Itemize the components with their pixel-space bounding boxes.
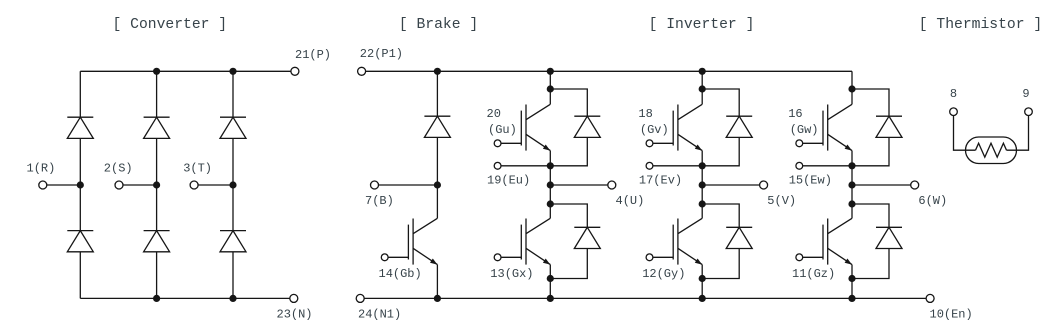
wire: converter leg R vertical [79, 71, 81, 298]
diode DB (brake) [424, 115, 450, 117]
wire: terminal 7(B) lead [379, 184, 438, 186]
svg-text:12(Gy): 12(Gy) [642, 267, 685, 281]
svg-text:17(Ev): 17(Ev) [639, 174, 682, 188]
wire: P1 top rail [366, 70, 852, 72]
node: brake mid junction B [434, 181, 441, 188]
wire: U-phase leg to N1 rail [549, 279, 551, 299]
terminal 6(W) [911, 181, 919, 189]
wire: V-phase collector drop [701, 71, 703, 89]
terminal 17(Ev) [646, 162, 653, 169]
wire: V-phase lower freewheel diode branch [702, 204, 739, 227]
terminal 4(U) [608, 181, 616, 189]
wire: converter leg S vertical [156, 71, 158, 298]
svg-text:23(N): 23(N) [277, 308, 313, 322]
terminal 22(P1) [358, 67, 366, 75]
node: leg T bottom rail junction [229, 295, 236, 302]
node: U-phase lower collector junction [547, 200, 554, 207]
wire: U-phase lower freewheel diode branch [550, 204, 587, 227]
node: V-phase upper diode branch junction [699, 85, 706, 92]
wire: terminal 15(Ew) lead [803, 165, 852, 167]
svg-text:2(S): 2(S) [104, 161, 133, 175]
svg-text:20: 20 [487, 107, 501, 121]
wire: W-phase leg to N1 rail [851, 279, 853, 299]
svg-text:(Gw): (Gw) [790, 123, 819, 137]
svg-text:13(Gx): 13(Gx) [490, 267, 533, 281]
node: V-phase bottom rail junction [699, 295, 706, 302]
wire: terminal 6(W) lead [852, 184, 911, 186]
svg-text:9: 9 [1022, 87, 1029, 101]
svg-text:15(Ew): 15(Ew) [789, 174, 832, 188]
wire: V-phase leg to N1 rail [701, 279, 703, 299]
wire: V-phase upper IGBT collector [701, 89, 703, 104]
terminal 2(S) [115, 181, 123, 189]
svg-text:1(R): 1(R) [27, 161, 56, 175]
transistor 12(Gy) lower IGBT [677, 219, 679, 265]
wire: W-phase mid vertical [851, 166, 853, 204]
terminal 24(N1) [356, 294, 364, 302]
wire: V-phase lower IGBT collector [701, 204, 703, 218]
node: V-phase lower collector junction [699, 200, 706, 207]
svg-text:4(U): 4(U) [616, 194, 645, 208]
wire: U-phase lower IGBT collector [549, 204, 551, 218]
svg-text:18: 18 [638, 107, 652, 121]
node: W-phase bottom rail junction [848, 295, 855, 302]
svg-text:(Gu): (Gu) [488, 123, 517, 137]
wire: terminal 3(T) lead [198, 184, 233, 186]
thermistor RT1 zigzag element [976, 143, 1007, 157]
node: U-phase upper diode branch junction [547, 85, 554, 92]
terminal 21(P) [291, 67, 299, 75]
wire: W-phase lower emitter drop [851, 265, 853, 279]
node: leg T mid junction [229, 181, 236, 188]
wire: terminal 17(Ev) lead [653, 165, 702, 167]
svg-text:19(Eu): 19(Eu) [487, 174, 530, 188]
thermistor RT1 capsule outline [966, 137, 1017, 164]
diode D18 (upper freewheel) [726, 115, 752, 117]
wire: converter leg T vertical [232, 71, 234, 298]
wire: thermistor lead 8 [954, 116, 976, 151]
node: V-phase output junction [699, 181, 706, 188]
wire: terminal 5(V) lead [702, 184, 759, 186]
diode D1L (converter lower, leg R) [67, 230, 93, 232]
node: brake leg bottom rail junction [434, 295, 441, 302]
wire: N1 bottom rail [364, 297, 926, 299]
svg-text:[ Thermistor ]: [ Thermistor ] [919, 17, 1042, 33]
wire: W-phase upper freewheel diode branch [852, 89, 889, 116]
transistor 11(Gz) lower IGBT [827, 219, 829, 265]
svg-text:(Gv): (Gv) [640, 123, 669, 137]
wire: U-phase mid vertical [549, 166, 551, 204]
svg-text:8: 8 [950, 87, 957, 101]
diode D3L (converter lower, leg T) [220, 230, 246, 232]
terminal 23(N) [290, 294, 298, 302]
node: U-phase bottom rail junction [547, 295, 554, 302]
terminal 7(B) [371, 181, 379, 189]
terminal 19(Eu) [494, 162, 501, 169]
wire: W-phase collector drop [851, 71, 853, 89]
wire: W-phase lower IGBT collector [851, 204, 853, 218]
transistor 18(Gv) upper IGBT [677, 105, 679, 151]
node: W-phase lower collector junction [848, 200, 855, 207]
node: W-phase upper diode branch junction [848, 85, 855, 92]
wire: U-phase upper freewheel diode branch [550, 89, 587, 116]
svg-text:6(W): 6(W) [918, 194, 947, 208]
wire: terminal 1(R) lead [47, 184, 81, 186]
node: W-phase emitter junction [848, 162, 855, 169]
svg-text:[ Brake ]: [ Brake ] [399, 17, 478, 33]
node: W-phase lower emitter junction [848, 275, 855, 282]
svg-text:5(V): 5(V) [767, 194, 796, 208]
svg-text:11(Gz): 11(Gz) [792, 267, 835, 281]
transistor 16(Gw) upper IGBT [827, 105, 829, 151]
transistor Q7 14(Gb) brake IGBT [412, 219, 414, 265]
node: leg S bottom rail junction [153, 295, 160, 302]
node: V-phase emitter junction [699, 162, 706, 169]
svg-text:14(Gb): 14(Gb) [379, 267, 422, 281]
wire: V-phase upper emitter drop [701, 151, 703, 166]
diode D11 (lower freewheel) [876, 226, 902, 228]
svg-text:10(En): 10(En) [930, 308, 973, 322]
wire: U-phase collector drop [549, 71, 551, 89]
svg-text:[ Converter ]: [ Converter ] [113, 17, 228, 33]
wire: W-phase upper IGBT collector [851, 89, 853, 104]
terminal 3(T) [190, 181, 198, 189]
diode D16 (upper freewheel) [876, 115, 902, 117]
wire: brake diode to node B [436, 137, 438, 185]
terminal 10(En) [926, 294, 934, 302]
diode D1U (converter upper, leg R) [67, 116, 93, 118]
wire: converter N bottom rail [80, 297, 289, 299]
transistor 20(Gu) upper IGBT [525, 105, 527, 151]
wire: U-phase upper emitter drop [549, 151, 551, 166]
terminal 9 [1025, 108, 1033, 116]
diode D20 (upper freewheel) [574, 115, 600, 117]
diode D3U (converter upper, leg T) [220, 116, 246, 118]
terminal 15(Ew) [796, 162, 803, 169]
diode D2L (converter lower, leg S) [144, 230, 170, 232]
svg-text:[ Inverter ]: [ Inverter ] [649, 17, 755, 33]
terminal 8 [950, 108, 958, 116]
wire: V-phase mid vertical [701, 166, 703, 204]
node: U-phase lower emitter junction [547, 275, 554, 282]
diode D12 (lower freewheel) [726, 226, 752, 228]
wire: W-phase lower freewheel diode branch [852, 204, 889, 227]
wire: U-phase upper IGBT collector [549, 89, 551, 104]
wire: terminal 2(S) lead [123, 184, 157, 186]
wire: brake IGBT collector [436, 185, 438, 218]
node: brake leg top rail junction [434, 68, 441, 75]
svg-text:16: 16 [788, 107, 802, 121]
wire: W-phase upper emitter drop [851, 151, 853, 166]
node: leg S top rail junction [153, 68, 160, 75]
svg-text:3(T): 3(T) [183, 161, 212, 175]
node: leg R mid junction [77, 181, 84, 188]
wire: terminal 19(Eu) lead [501, 165, 550, 167]
wire: V-phase lower emitter drop [701, 265, 703, 279]
wire: brake IGBT emitter to N1 rail [436, 265, 438, 299]
node: U-phase top rail junction [547, 68, 554, 75]
node: U-phase output junction [547, 181, 554, 188]
svg-text:22(P1): 22(P1) [360, 47, 403, 61]
node: V-phase lower emitter junction [699, 275, 706, 282]
node: W-phase output junction [848, 181, 855, 188]
node: U-phase emitter junction [547, 162, 554, 169]
wire: thermistor lead 9 [1007, 116, 1029, 151]
transistor 13(Gx) lower IGBT [525, 219, 527, 265]
terminal 5(V) [760, 181, 768, 189]
svg-text:7(B): 7(B) [365, 194, 394, 208]
wire: brake diode upper lead [436, 71, 438, 116]
svg-text:24(N1): 24(N1) [358, 308, 401, 322]
wire: terminal 4(U) lead [550, 184, 608, 186]
wire: U-phase lower emitter drop [549, 265, 551, 279]
node: leg S mid junction [153, 181, 160, 188]
svg-text:21(P): 21(P) [295, 48, 331, 62]
diode D13 (lower freewheel) [574, 226, 600, 228]
node: V-phase top rail junction [699, 68, 706, 75]
node: leg T top rail junction [229, 68, 236, 75]
wire: V-phase upper freewheel diode branch [702, 89, 739, 116]
wire: converter P top rail [80, 70, 291, 72]
terminal 1(R) [39, 181, 47, 189]
diode D2U (converter upper, leg S) [144, 116, 170, 118]
